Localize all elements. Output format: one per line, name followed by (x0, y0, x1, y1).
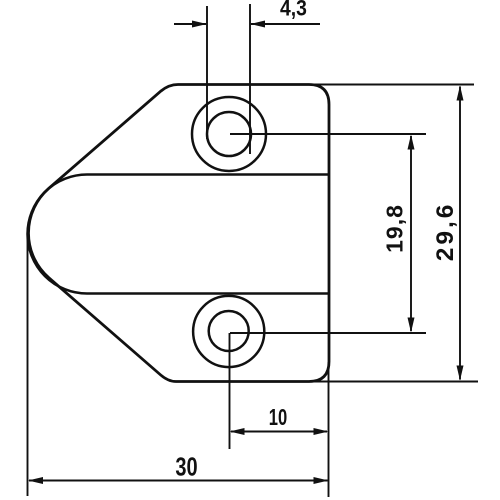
svg-text:30: 30 (175, 452, 197, 481)
dimension 10 dimension line (231, 431, 327, 433)
dimension 30 extension line left (27, 238, 29, 496)
dimension 4,3 arrow right (points left) (250, 21, 265, 28)
dimension 29,6 arrow down (457, 366, 464, 381)
dimension 29,6 arrow up (457, 86, 464, 101)
svg-text:19,8: 19,8 (382, 204, 408, 253)
dimension 29,6 extension line top (309, 84, 474, 86)
dimension 4,3 dimension line right part (251, 23, 320, 25)
dimension 30 dimension line (29, 480, 328, 482)
dimension 30 arrow left (28, 477, 43, 484)
hole H1 outer circle (192, 97, 266, 171)
dimension 4,3 dimension line left part (174, 23, 206, 25)
tongue (rounded middle band) (28, 175, 330, 294)
dimension 19,8 arrow up (408, 135, 415, 150)
svg-text:10: 10 (269, 405, 287, 430)
hole H1 inner circle (207, 112, 251, 156)
dimension 19,8 arrow down (408, 318, 415, 333)
dimension 4,3 extension line right (249, 4, 251, 154)
hole H2 inner circle (209, 311, 249, 351)
part outline (flange) (28, 85, 329, 382)
dimension 10 arrow left (230, 428, 245, 435)
dimension 29,6 dimension line (459, 87, 461, 380)
dimension 4,3 label (280, 0, 307, 21)
dimension 10 extension line left (hole centerline) (229, 333, 231, 449)
dimension 4,3 extension line left (206, 6, 208, 139)
svg-text:4,3: 4,3 (280, 0, 307, 21)
dimension 10 label (269, 405, 287, 430)
dimension 4,3 arrow left (points right) (192, 21, 207, 28)
dimension 19,8 extension line bottom (230, 332, 426, 334)
dimension 29,6 extension line bottom (309, 381, 478, 383)
dimension 10 / 30 extension line right (328, 362, 330, 497)
dimension 30 label (175, 452, 197, 481)
dimension 10 arrow right (314, 428, 329, 435)
dimension 19,8 extension line top (230, 133, 426, 135)
dimension 30 arrow right (314, 477, 329, 484)
dimension 19,8 dimension line (410, 136, 412, 331)
svg-text:29,6: 29,6 (432, 202, 459, 262)
hole H2 outer circle (193, 296, 264, 367)
